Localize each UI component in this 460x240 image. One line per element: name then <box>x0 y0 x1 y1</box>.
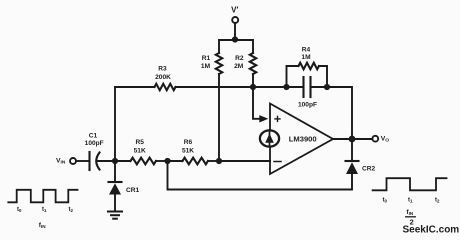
wire R6 to right node <box>208 160 219 162</box>
capacitor 100pF feedback <box>287 77 328 108</box>
svg-text:LM3900: LM3900 <box>289 134 317 143</box>
wire T-bar <box>219 40 253 53</box>
node R6/minus wire <box>216 158 222 164</box>
node C1/R5/CR1 <box>112 158 118 164</box>
svg-text:fIN: fIN <box>406 209 413 216</box>
svg-text:R6: R6 <box>184 139 193 146</box>
node V' junction <box>232 36 238 42</box>
svg-text:1M: 1M <box>201 63 211 70</box>
svg-text:2M: 2M <box>234 63 244 70</box>
wire main horizontal left segment <box>115 86 155 88</box>
terminal VO <box>372 136 389 144</box>
svg-text:1M: 1M <box>301 54 311 61</box>
svg-text:t0: t0 <box>17 207 22 213</box>
label f_IN/2 fraction <box>406 209 416 227</box>
svg-text:VIN: VIN <box>56 157 66 165</box>
wire to output node <box>327 87 352 139</box>
resistor R5 <box>131 139 156 164</box>
ground <box>108 212 122 219</box>
svg-text:CR1: CR1 <box>126 187 140 194</box>
svg-text:CR2: CR2 <box>362 166 376 173</box>
diode CR2 <box>346 139 376 174</box>
input waveform f_IN <box>8 190 77 203</box>
wire R4 branch down-right <box>319 66 327 87</box>
svg-text:R5: R5 <box>135 139 144 146</box>
svg-text:100pF: 100pF <box>85 140 104 147</box>
svg-text:SeekIC.com: SeekIC.com <box>403 225 460 236</box>
wire middle node to R6 <box>168 160 183 162</box>
wire plus input branch <box>253 87 262 119</box>
current source symbol inside op-amp <box>260 130 279 146</box>
svg-text:VO: VO <box>381 136 390 144</box>
node R4 combo left <box>283 84 289 90</box>
diode CR1 <box>109 161 140 212</box>
wire minus input <box>219 160 270 162</box>
output waveform f_IN/2 <box>373 178 447 190</box>
wire R2 bottom lead <box>252 74 254 87</box>
svg-text:R2: R2 <box>235 55 244 62</box>
svg-text:t0: t0 <box>383 198 388 204</box>
svg-text:100pF: 100pF <box>298 101 317 108</box>
wire main horizontal right segment <box>176 86 287 88</box>
wire node to R5 <box>115 160 131 162</box>
resistor R1 <box>201 53 222 74</box>
svg-text:200K: 200K <box>155 74 171 81</box>
svg-text:t1: t1 <box>408 198 413 204</box>
svg-text:t2: t2 <box>435 198 440 204</box>
op-amp U1 LM3900 <box>270 104 333 175</box>
node R4 combo right <box>324 84 330 90</box>
capacitor C1 <box>85 132 104 170</box>
svg-text:R1: R1 <box>202 55 211 62</box>
node R5/R6/feedback <box>164 158 170 164</box>
svg-text:C1: C1 <box>89 132 98 139</box>
node output <box>349 136 356 143</box>
wire C1 to node <box>97 160 116 162</box>
wire VIN to C1 <box>76 160 89 162</box>
svg-text:51K: 51K <box>134 147 146 154</box>
plus input arrowhead <box>259 115 268 122</box>
wire op-amp output <box>333 138 372 140</box>
svg-text:V′: V′ <box>231 6 238 15</box>
resistor R4 <box>299 46 319 69</box>
node R2 main wire junction <box>250 84 256 90</box>
svg-text:fIN: fIN <box>39 222 46 229</box>
wire left vertical to C1 node <box>114 87 116 161</box>
wire feedback bottom <box>168 161 353 190</box>
svg-text:R3: R3 <box>158 66 167 73</box>
resistor R6 <box>182 139 208 164</box>
svg-text:R4: R4 <box>302 46 311 53</box>
svg-text:t1: t1 <box>42 207 47 213</box>
svg-text:t2: t2 <box>69 207 74 213</box>
resistor R3 <box>155 66 176 91</box>
wire R1 bottom through main wire to R6 node <box>218 74 220 161</box>
wire V' lead <box>234 23 236 40</box>
svg-text:51K: 51K <box>182 147 194 154</box>
resistor R2 <box>234 53 256 74</box>
wire R5 to middle node <box>156 160 168 162</box>
wire R4 branch up-left <box>287 66 299 87</box>
terminal V' <box>231 6 238 23</box>
terminal VIN <box>56 157 76 165</box>
